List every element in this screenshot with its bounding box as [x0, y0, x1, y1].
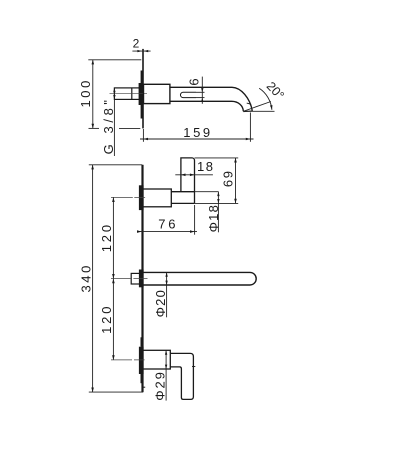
spout escutcheon flange [139, 270, 144, 288]
top handle stem [171, 192, 194, 204]
svg-text:159: 159 [183, 125, 213, 140]
dimension 6 (slot) [196, 77, 205, 104]
wall plate (front view, edge-on) [141, 165, 143, 392]
plate tick bottom [143, 386, 145, 388]
pipe collar divider [131, 88, 133, 100]
svg-text:340: 340 [78, 263, 93, 293]
spout (front view, long bar with round end) [143, 272, 256, 285]
dimension 76 (projection) [139, 205, 197, 235]
svg-text:Φ20: Φ20 [153, 289, 168, 317]
dimension 20 degrees (outlet angle) [243, 88, 274, 111]
lever tangent tick [192, 366, 195, 368]
svg-text:2: 2 [133, 37, 140, 51]
top handle lever [181, 158, 195, 204]
top handle body (front view) [143, 189, 172, 207]
svg-text:20°: 20° [264, 79, 287, 102]
spout body (top view) [144, 84, 170, 103]
spout tube outline with curved outlet [170, 87, 252, 111]
mounting boss (top view) [139, 83, 144, 105]
dimension 159 (spout reach) [140, 113, 254, 142]
svg-text:69: 69 [220, 169, 235, 187]
dimension 120 lower [112, 279, 114, 360]
wall line (top view) [142, 49, 144, 128]
bottom handle body (side view) [143, 350, 171, 369]
dimension G 3/8" (inlet thread) [113, 88, 115, 156]
bottom handle lever (L-shape) [170, 353, 193, 399]
dimension diameter 29 (handle body) [165, 350, 167, 400]
dimension diameter 18 (stem) [195, 192, 219, 233]
dimension diameter 20 (spout) [166, 272, 168, 317]
bottom mount collar upper [141, 337, 144, 346]
centerline (top view) [110, 93, 148, 95]
svg-text:100: 100 [78, 78, 93, 108]
dimension 69 (handle height) [195, 158, 239, 204]
dimension 2 (plate thickness) [132, 50, 150, 52]
centerline top handle [111, 196, 145, 198]
svg-text:Φ18: Φ18 [206, 204, 221, 232]
bottom handle escutcheon flange [139, 347, 144, 374]
dimension 100 (plate height) [88, 60, 141, 129]
centerline spout [111, 278, 148, 280]
spout tip face line [243, 110, 252, 113]
svg-text:Φ29: Φ29 [152, 370, 167, 401]
svg-text:18: 18 [197, 159, 215, 174]
inlet pipe G3/8 (top view) [114, 88, 140, 100]
svg-text:6: 6 [187, 78, 202, 85]
top handle escutcheon flange [139, 185, 144, 210]
svg-text:76: 76 [158, 216, 178, 231]
wall plate edge-on (top view) [141, 71, 144, 119]
spout tip inner dash [247, 103, 252, 104]
dimension 120 upper [112, 197, 114, 278]
spout back nut [131, 273, 140, 284]
centerline bottom handle [111, 359, 145, 361]
aerator slot (hidden detail) [180, 92, 196, 97]
dimension 18 (lever width) [175, 174, 213, 176]
dimension 340 (total height) [89, 165, 143, 392]
svg-text:120: 120 [99, 222, 114, 252]
svg-text:G 3/8": G 3/8" [101, 96, 116, 154]
svg-text:120: 120 [99, 304, 114, 334]
bottom mount collar lower [141, 374, 144, 383]
